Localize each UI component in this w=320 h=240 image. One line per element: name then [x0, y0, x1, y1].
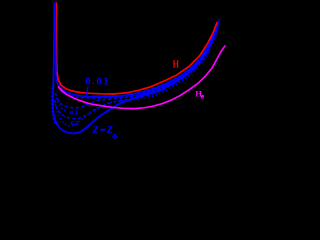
- svg-text:0.3: 0.3: [71, 120, 80, 127]
- blue dotted line left of V edge: [51, 88, 55, 125]
- svg-text:H: H: [173, 59, 179, 70]
- svg-text:Z: Z: [92, 125, 99, 136]
- blue dashed curve B3 (0.1 dip): [56, 28, 219, 108]
- blue solid inner band line 2: [160, 28, 218, 90]
- blue dotted curve B5a (short, under 0.1 arc): [55, 94, 67, 112]
- svg-text:0.1: 0.1: [70, 110, 78, 117]
- blue dashed curve B2 (0.01 shallow dip): [58, 26, 219, 98]
- sun symbol dot: [114, 136, 115, 137]
- equals bar: [100, 129, 105, 131]
- blue dashed curve B4 (0.3 deep dip): [55, 30, 218, 119]
- blue solid inner band line: [140, 30, 217, 95]
- blue solid curve B6 (Z = Zsun deep V): [53, 3, 165, 133]
- red curve H: [57, 23, 217, 95]
- sun symbol circle: [113, 135, 117, 139]
- blue solid curve B1 (band top): [55, 3, 219, 97]
- svg-text:0.01: 0.01: [85, 77, 110, 88]
- svg-text:Z: Z: [106, 125, 113, 136]
- red curve H vertical asymptote part: [55, 3, 58, 73]
- pointer line from 0.01 label: [86, 87, 88, 96]
- blue dotted curve B5 (deep arc below 0.3): [55, 35, 217, 126]
- magenta curve He: [59, 46, 226, 109]
